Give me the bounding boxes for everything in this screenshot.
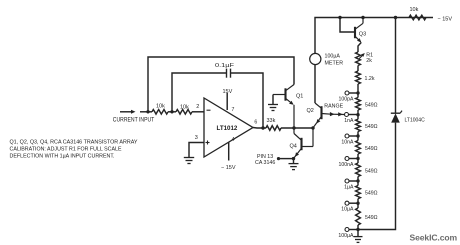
- svg-text:10k: 10k: [180, 104, 189, 110]
- transistor Q2: [313, 106, 331, 128]
- svg-text:1µA: 1µA: [344, 185, 354, 191]
- resistor 549ohm #4: [356, 163, 361, 177]
- svg-text:10k: 10k: [410, 7, 419, 13]
- svg-text:15V: 15V: [223, 89, 233, 95]
- switch contact 100pA: [345, 91, 349, 95]
- svg-text:CURRENT INPUT: CURRENT INPUT: [113, 117, 155, 123]
- note text block: [10, 139, 138, 159]
- wire Q3 base from rail: [340, 18, 355, 33]
- transistor Q1: [273, 85, 294, 129]
- ground (pin 3): [184, 157, 194, 159]
- node: current input arrow: [120, 110, 136, 114]
- transistor Q3: [355, 18, 363, 53]
- node chain tap 100nA: [356, 157, 359, 160]
- node J1 (outer feedback tap): [146, 110, 149, 113]
- svg-text:549Ω: 549Ω: [365, 191, 378, 197]
- svg-text:2: 2: [196, 104, 199, 110]
- node chain tap 100pA: [356, 91, 359, 94]
- wire 1.2k to chain top: [357, 84, 359, 93]
- svg-text:1nA: 1nA: [344, 118, 354, 124]
- svg-text:549Ω: 549Ω: [365, 168, 378, 174]
- wire contact 100pA to chain: [349, 92, 358, 94]
- svg-text:Q1, Q2, Q3, Q4, RCA CA3146 TRA: Q1, Q2, Q3, Q4, RCA CA3146 TRANSISTOR AR…: [10, 139, 138, 145]
- svg-text:CALIBRATION: ADJUST R1 FOR FUL: CALIBRATION: ADJUST R1 FOR FULL SCALE: [10, 146, 122, 152]
- op-amp minus sign (pin 2): [207, 109, 211, 111]
- range switch pole wire with arrows: [330, 112, 344, 116]
- node Q4 emitter / ground: [292, 157, 295, 160]
- resistor 549ohm #2: [356, 119, 361, 131]
- ground (Q1 base): [268, 104, 278, 106]
- svg-text:3: 3: [195, 135, 198, 141]
- wire rail down to zener: [395, 18, 397, 114]
- svg-text:33k: 33k: [267, 118, 276, 124]
- node J5 (Q2 emitter / Q4 base): [311, 126, 314, 129]
- pin 6 output wire: [253, 127, 266, 130]
- svg-text:10µA: 10µA: [341, 207, 354, 213]
- resistor 549ohm #6: [356, 208, 361, 225]
- wire chain bottom to ground: [357, 230, 359, 237]
- wire R1 to 1.2k: [357, 66, 359, 72]
- resistor 549ohm #1: [356, 98, 361, 111]
- wire input row: [140, 111, 152, 113]
- wire contact 10µA to chain: [349, 202, 358, 204]
- svg-text:4: 4: [232, 137, 235, 143]
- switch contact 100nA: [345, 157, 349, 161]
- svg-text:LT1012: LT1012: [217, 125, 238, 132]
- svg-text:100pA: 100pA: [338, 97, 354, 103]
- switch contact 1µA: [345, 179, 349, 183]
- pin 4 supply stub -15V: [228, 142, 230, 160]
- op-amp plus sign (pin 3): [206, 141, 210, 145]
- wire chain segment: [357, 136, 359, 141]
- svg-text:6: 6: [254, 120, 257, 126]
- svg-text:100µA: 100µA: [325, 54, 341, 60]
- svg-text:549Ω: 549Ω: [365, 124, 378, 130]
- resistor 549ohm #5: [356, 186, 361, 199]
- node chain tap 1nA: [356, 113, 359, 116]
- svg-text:CA 3146: CA 3146: [255, 160, 275, 166]
- resistor 10k (input second): [176, 110, 192, 115]
- node rail to LT1004 branch: [394, 16, 397, 19]
- node chain tap 10µA: [356, 202, 359, 205]
- node chain tap 100µA: [356, 228, 359, 231]
- svg-text:SeekIC.com: SeekIC.com: [410, 232, 458, 242]
- svg-text:100µA: 100µA: [338, 233, 354, 239]
- meter M1 100uA: [310, 53, 321, 64]
- label PIN 13 CA 3146 with pointer: [277, 157, 280, 160]
- wire chain segment: [357, 93, 359, 98]
- svg-text:Q2: Q2: [307, 108, 314, 114]
- svg-text:549Ω: 549Ω: [365, 102, 378, 108]
- resistor 33k: [266, 126, 281, 131]
- node J2 (cap feedback tap): [170, 110, 173, 113]
- wire contact 1nA to chain: [349, 114, 358, 116]
- wire contact 100nA to chain: [349, 158, 358, 160]
- resistor R1 2k (variable): [356, 52, 361, 66]
- wire chain segment: [357, 159, 359, 164]
- wire zener to chain bottom: [358, 123, 396, 230]
- wire between 10k resistors: [168, 111, 176, 113]
- pin 3 wire to ground: [189, 143, 204, 158]
- svg-text:1.2k: 1.2k: [365, 76, 375, 82]
- svg-text:549Ω: 549Ω: [365, 146, 378, 152]
- resistor 10k (input first): [152, 110, 168, 115]
- svg-text:549Ω: 549Ω: [365, 215, 378, 221]
- svg-text:100nA: 100nA: [338, 162, 354, 168]
- svg-text:RANGE: RANGE: [324, 104, 343, 110]
- resistor 10k (supply): [409, 15, 426, 20]
- wire contact 1µA to chain: [349, 180, 358, 182]
- svg-text:METER: METER: [325, 60, 344, 66]
- wire 33k to Q1/Q4 node: [281, 127, 313, 129]
- wire chain segment: [357, 115, 359, 120]
- node J4 (Q1 emitter / Q4 collector): [292, 126, 295, 129]
- op-amp U1 LT1012 triangle: [204, 98, 253, 157]
- transistor Q4: [294, 128, 314, 159]
- node rail Q3 base drop: [338, 16, 341, 19]
- wire inner feedback loop right (cap to output node): [231, 73, 264, 128]
- svg-text:Q1: Q1: [296, 94, 303, 100]
- wire contact 10nA to chain: [349, 135, 358, 137]
- switch contact 1nA (selected, pole): [345, 113, 349, 117]
- resistor 1.2k: [356, 71, 361, 84]
- zener diode D1 LT1004C: [391, 111, 402, 123]
- wire chain segment: [357, 181, 359, 186]
- node chain tap 10nA: [356, 134, 359, 137]
- svg-text:Q4: Q4: [290, 144, 297, 150]
- wire inner feedback loop left (to 0.1uF): [172, 73, 227, 112]
- svg-text:− 15V: − 15V: [438, 16, 453, 22]
- svg-text:Q3: Q3: [359, 32, 366, 38]
- svg-text:DEFLECTION WITH 1µA INPUT CURR: DEFLECTION WITH 1µA INPUT CURRENT.: [10, 154, 115, 160]
- wire meter to Q2 collector: [314, 65, 316, 103]
- ground (chain bottom): [354, 236, 363, 238]
- svg-text:− 15V: − 15V: [221, 165, 236, 171]
- svg-text:10k: 10k: [156, 103, 165, 109]
- wire top rail left segment: [315, 18, 433, 54]
- svg-text:10nA: 10nA: [341, 140, 354, 146]
- switch contact 100µA: [345, 228, 349, 232]
- switch contact 10µA: [345, 201, 349, 205]
- svg-text:0.1µF: 0.1µF: [215, 63, 235, 69]
- wire Q1 base to ground: [272, 95, 274, 105]
- wire outer feedback loop (input node to Q1 collector): [148, 57, 294, 112]
- node rail Q3 collector: [361, 16, 364, 19]
- wire chain segment: [357, 203, 359, 208]
- svg-text:LT1004C: LT1004C: [405, 117, 426, 123]
- svg-text:7: 7: [232, 107, 235, 113]
- wire to ground: [293, 159, 295, 164]
- capacitor C1 0.1uF: [227, 69, 231, 78]
- svg-text:2k: 2k: [366, 58, 372, 64]
- wire contact 100µA to chain: [349, 229, 358, 231]
- resistor 549ohm #3: [356, 141, 361, 155]
- node J3 (cap feedback join): [261, 126, 264, 129]
- ground (Q4 emitter): [289, 163, 299, 165]
- wire to op-amp pin 2: [192, 111, 204, 113]
- switch contact 10nA: [345, 134, 349, 138]
- node chain tap 1µA: [356, 179, 359, 182]
- pin 7 supply stub 15V: [226, 93, 228, 110]
